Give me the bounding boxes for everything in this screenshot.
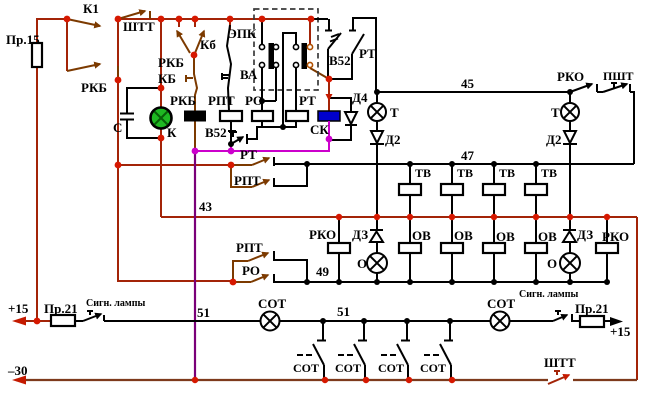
- svg-text:ЭПК: ЭПК: [228, 26, 257, 41]
- svg-text:Кб: Кб: [200, 37, 216, 52]
- svg-text:Пр.21: Пр.21: [44, 301, 78, 316]
- svg-text:РТ: РТ: [240, 147, 257, 162]
- svg-text:–30: –30: [7, 363, 28, 378]
- svg-text:О: О: [547, 256, 557, 271]
- svg-text:ПШТ: ПШТ: [603, 69, 634, 83]
- svg-text:Сигн. лампы: Сигн. лампы: [519, 289, 578, 300]
- svg-text:В52: В52: [205, 125, 227, 140]
- svg-text:КБ: КБ: [158, 71, 176, 86]
- svg-text:Т: Т: [390, 105, 399, 120]
- svg-text:+15: +15: [610, 324, 631, 339]
- svg-text:РПТ: РПТ: [208, 93, 235, 108]
- svg-text:РПТ: РПТ: [236, 240, 263, 255]
- svg-text:ОВ: ОВ: [454, 228, 473, 243]
- svg-text:СОТ: СОТ: [378, 361, 404, 375]
- svg-text:РКБ: РКБ: [158, 55, 184, 70]
- svg-text:51: 51: [197, 305, 210, 320]
- svg-text:СОТ: СОТ: [487, 296, 516, 311]
- svg-text:СОТ: СОТ: [293, 361, 319, 375]
- svg-text:51: 51: [337, 304, 350, 319]
- svg-text:Сигн. лампы: Сигн. лампы: [86, 298, 145, 309]
- svg-text:СОТ: СОТ: [335, 361, 361, 375]
- svg-text:РКБ: РКБ: [81, 80, 107, 95]
- svg-text:ТВ: ТВ: [499, 166, 515, 180]
- svg-text:С: С: [113, 120, 122, 135]
- svg-text:ТВ: ТВ: [457, 166, 473, 180]
- svg-text:ТВ: ТВ: [415, 166, 431, 180]
- svg-text:ШТТ: ШТТ: [544, 355, 576, 370]
- svg-text:ДЗ: ДЗ: [577, 227, 593, 242]
- svg-text:РКО: РКО: [557, 69, 584, 84]
- svg-text:ВА: ВА: [240, 67, 258, 82]
- svg-text:ШТТ: ШТТ: [123, 19, 155, 34]
- svg-text:СК: СК: [310, 122, 329, 137]
- svg-text:Пр.15: Пр.15: [6, 32, 40, 47]
- svg-text:РТ: РТ: [299, 93, 316, 108]
- svg-text:ДЗ: ДЗ: [352, 227, 368, 242]
- svg-text:К1: К1: [83, 1, 99, 16]
- svg-text:СОТ: СОТ: [258, 296, 287, 311]
- svg-text:В52: В52: [329, 53, 351, 68]
- svg-text:49: 49: [316, 264, 330, 279]
- svg-text:РО: РО: [245, 93, 263, 108]
- svg-text:Т: Т: [551, 105, 560, 120]
- svg-text:РО: РО: [242, 263, 260, 278]
- svg-text:ТВ: ТВ: [541, 166, 557, 180]
- svg-text:РКО: РКО: [602, 229, 629, 244]
- svg-text:Пр.21: Пр.21: [575, 301, 609, 316]
- svg-text:К: К: [167, 125, 177, 140]
- svg-text:РПТ: РПТ: [234, 173, 261, 188]
- svg-text:+15: +15: [8, 301, 29, 316]
- svg-text:РКО: РКО: [309, 227, 336, 242]
- svg-text:47: 47: [461, 148, 475, 163]
- svg-text:45: 45: [461, 76, 475, 91]
- svg-text:РТ: РТ: [359, 46, 376, 61]
- svg-text:ОВ: ОВ: [412, 228, 431, 243]
- svg-text:СОТ: СОТ: [420, 361, 446, 375]
- svg-text:РКБ: РКБ: [170, 93, 196, 108]
- svg-text:ОВ: ОВ: [538, 229, 557, 244]
- svg-text:ОВ: ОВ: [496, 229, 515, 244]
- svg-text:Д4: Д4: [352, 90, 368, 105]
- svg-text:Д2: Д2: [385, 132, 400, 147]
- svg-text:Д2: Д2: [546, 132, 561, 147]
- svg-text:О: О: [357, 256, 367, 271]
- svg-text:43: 43: [199, 199, 213, 214]
